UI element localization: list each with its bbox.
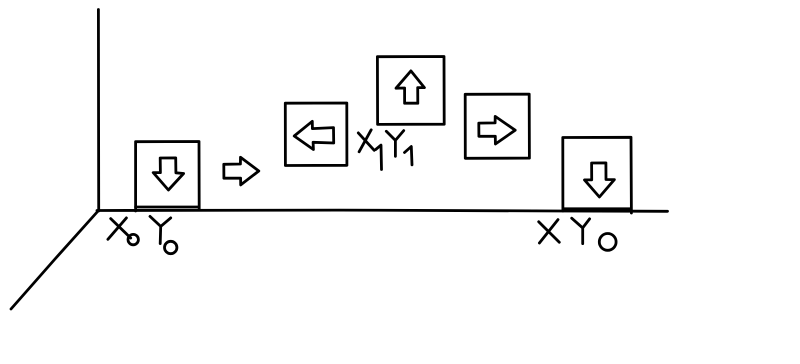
label O (bottom right): circle o [599,234,616,251]
vertical axis [97,10,100,212]
diagonal axis [11,211,99,310]
label Y1 subscript 1 [405,147,413,165]
label X1 (middle): letter X [358,133,374,150]
label Y (bottom right): letter Y [572,218,590,243]
box 5 (down-arrow square) [563,137,632,213]
label Y0 subscript o [165,241,177,253]
lone right arrow [224,157,259,185]
left arrow in box 2 [294,121,334,149]
horizontal axis [97,210,668,211]
up arrow in box 3 [396,71,424,103]
label Y0 (under box 1): letter Y [150,216,171,243]
box 4 (right-arrow square) [465,94,529,158]
label X0 subscript o [128,234,138,244]
box 1 (down-arrow square) [136,142,200,212]
box 2 (left-arrow square) [285,103,347,166]
label X1 subscript 1 [376,145,382,169]
down arrow in box 1 [153,158,183,190]
label Y1 (middle): letter Y [386,131,403,157]
box 3 (up-arrow square) [377,57,444,125]
right arrow in box 4 [479,116,515,144]
label X (bottom right): letter X [539,222,560,243]
down arrow in box 5 [585,163,615,197]
label X0 (under box 1): letter X [111,219,131,238]
